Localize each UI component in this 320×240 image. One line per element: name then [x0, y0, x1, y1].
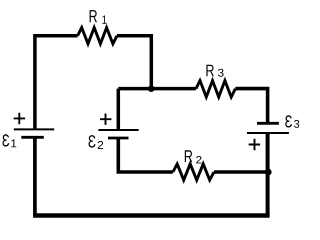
battery E3 short plate (-) — [257, 122, 279, 125]
resistor R3 — [196, 81, 235, 97]
plus sign E1 — [14, 113, 25, 124]
wire: E2 branch vertical lower, corner to R2 — [118, 138, 173, 172]
battery E1 long plate (+) — [14, 128, 54, 130]
wire: right vertical lower through node B — [266, 133, 270, 216]
wire: bottom horizontal — [33, 213, 270, 217]
label E1 — [2, 134, 16, 147]
wire: E2 branch vertical upper — [117, 89, 121, 130]
battery E2 short plate (-) — [108, 137, 129, 140]
wire: right of R2 to node B — [214, 170, 268, 174]
wire: right of R3 and down to E3 top plate — [235, 89, 267, 124]
resistor R2 — [173, 164, 214, 180]
battery E3 long plate (+) — [247, 132, 289, 134]
label E3 — [285, 115, 299, 128]
battery E2 long plate (+) — [98, 129, 138, 131]
wire: top horizontal right of R1, down to node A — [117, 36, 151, 89]
wire: E1 branch vertical lower — [33, 137, 37, 215]
node A junction dot — [148, 85, 155, 92]
wire: left vertical (upper) and top horizontal to R1 — [35, 36, 78, 130]
battery E1 short plate (-) — [21, 136, 44, 139]
label R3 — [206, 65, 223, 77]
resistor R1 — [78, 28, 117, 44]
label R1 — [90, 10, 107, 24]
wire: middle horizontal from E2 branch through node A to R3 — [118, 87, 196, 91]
node B junction dot — [265, 169, 272, 176]
label R2 — [185, 150, 202, 163]
plus sign E3 — [249, 139, 260, 150]
label E2 — [89, 135, 104, 149]
plus sign E2 — [100, 114, 111, 125]
